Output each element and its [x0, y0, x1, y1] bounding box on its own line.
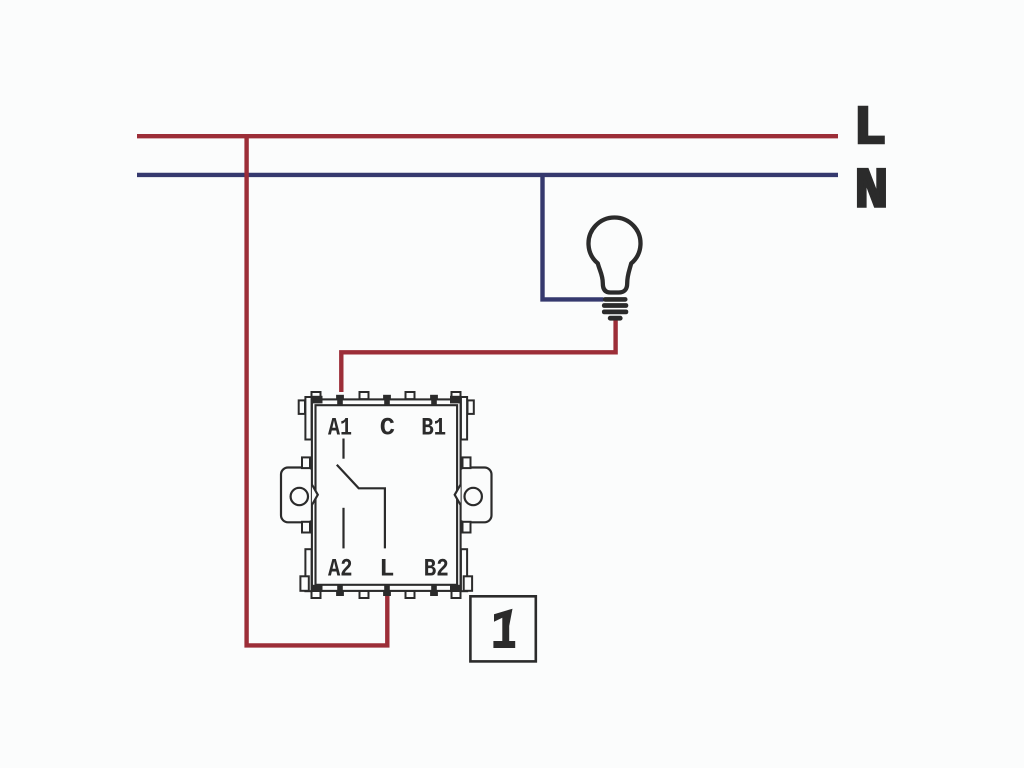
svg-text:B2: B2	[424, 555, 449, 584]
svg-text:L: L	[379, 555, 394, 584]
switch contact line from A1	[342, 439, 344, 459]
switch S1 bottom terminal notches	[336, 584, 438, 596]
unit number 1	[493, 609, 515, 648]
svg-text:A1: A1	[328, 414, 352, 443]
switch S1 bottom clip tabs	[312, 591, 461, 598]
switch S1 ear left hole	[291, 488, 308, 505]
svg-text:B1: B1	[421, 414, 446, 443]
svg-text:C: C	[380, 414, 395, 443]
switch S1 right side wings	[461, 397, 467, 440]
wire N line (neutral, blue horizontal)	[137, 173, 838, 177]
switch S1 right chevron clip	[455, 485, 461, 506]
unit number box	[470, 596, 535, 661]
wire red from lamp to switch A1	[341, 321, 615, 393]
switch S1 ear right hole	[465, 488, 482, 505]
switch S1 left side tabs	[299, 400, 310, 590]
svg-text:L: L	[853, 97, 886, 160]
wire L line (live, red horizontal)	[137, 134, 838, 138]
svg-text:N: N	[855, 159, 889, 223]
switch S1 mounting ear left	[281, 468, 315, 523]
wire blue from N to lamp	[543, 177, 604, 299]
wire red from L down and to switch terminal L	[247, 136, 388, 645]
lamp base thread 3	[602, 310, 628, 315]
lamp base tip	[608, 316, 623, 321]
switch S1 left side wings	[305, 397, 311, 440]
lamp base thread 1	[603, 297, 628, 302]
switch S1 top clip tabs	[312, 392, 461, 399]
switch S1 left chevron clip	[312, 485, 318, 506]
switch S1 right side tabs	[463, 400, 474, 590]
switch contact stub to A2	[342, 508, 344, 549]
lamp base thread 2	[602, 303, 628, 308]
switch S1 body inner frame	[316, 405, 458, 585]
switch lever and common to L	[337, 465, 385, 549]
switch S1 corner blocks	[311, 396, 462, 592]
switch S1 top terminal notches	[336, 395, 438, 406]
switch S1 body outer frame	[312, 399, 461, 591]
switch S1 mounting ear right	[458, 468, 492, 523]
svg-text:A2: A2	[328, 555, 353, 584]
lamp E1 bulb glass	[589, 217, 641, 292]
